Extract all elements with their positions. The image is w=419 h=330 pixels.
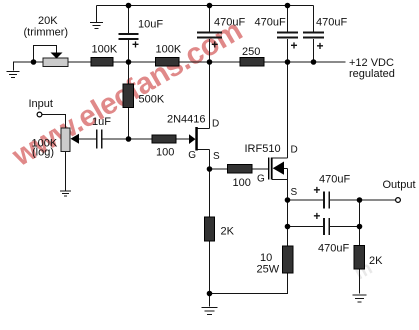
svg-text:20K: 20K [38,15,58,27]
svg-text:Output: Output [383,179,416,191]
svg-text:+: + [313,183,320,197]
svg-text:+: + [132,38,139,52]
svg-text:2K: 2K [221,226,235,238]
svg-text:470uF: 470uF [319,173,350,185]
svg-text:10uF: 10uF [138,19,163,31]
svg-text:+: + [317,39,324,53]
svg-text:470uF: 470uF [255,17,286,29]
svg-text:+: + [291,39,298,53]
svg-text:G: G [257,174,265,185]
svg-text:(trimmer): (trimmer) [24,26,69,38]
svg-text:+: + [211,38,218,52]
svg-text:100: 100 [233,177,251,189]
svg-text:S: S [213,151,220,162]
svg-text:470uF: 470uF [214,17,245,29]
svg-text:IRF510: IRF510 [245,143,281,155]
svg-text:1uF: 1uF [92,116,111,128]
svg-text:+: + [313,209,320,223]
svg-text:D: D [212,118,219,129]
svg-text:(log): (log) [32,147,54,159]
svg-text:G: G [188,150,196,161]
svg-text:250: 250 [242,46,260,58]
svg-text:100K: 100K [92,44,118,56]
svg-text:25W: 25W [257,264,280,276]
svg-text:regulated: regulated [349,68,395,80]
svg-text:100: 100 [156,147,174,159]
svg-text:470uF: 470uF [318,243,349,255]
svg-text:100K: 100K [156,44,182,56]
svg-text:2N4416: 2N4416 [167,113,206,125]
svg-text:2K: 2K [369,255,383,267]
svg-text:500K: 500K [139,94,165,106]
svg-text:+12 VDC: +12 VDC [349,57,394,69]
svg-text:D: D [291,145,298,156]
svg-text:10: 10 [260,252,272,264]
svg-text:470uF: 470uF [316,17,347,29]
svg-text:Input: Input [29,98,53,110]
svg-text:S: S [291,187,298,198]
